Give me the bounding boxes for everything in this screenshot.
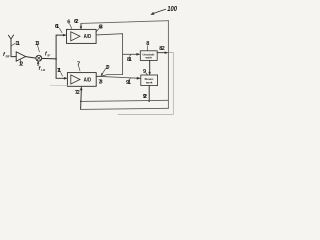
wire right vertical feedback — [167, 21, 169, 109]
svg-text:RF: RF — [6, 54, 10, 58]
svg-text:11: 11 — [15, 41, 20, 47]
label 13 leader — [38, 45, 40, 52]
svg-text:73: 73 — [98, 79, 102, 85]
svg-text:7: 7 — [77, 61, 80, 67]
wire 82 output of block 8 — [157, 52, 165, 54]
wire output stub of U7 — [96, 75, 100, 77]
block 8 — [140, 51, 157, 61]
label 7 leader — [79, 66, 81, 71]
svg-text:71: 71 — [57, 68, 61, 74]
svg-text:LO: LO — [41, 68, 46, 72]
block 9 — [141, 75, 158, 86]
label 9 leader — [146, 73, 148, 75]
svg-text:81: 81 — [127, 57, 132, 63]
svg-text:91: 91 — [126, 80, 131, 86]
svg-text:6: 6 — [67, 20, 70, 26]
wire fLO input — [37, 63, 39, 66]
label 61 leader — [59, 28, 62, 33]
wire 81 into block 8 — [123, 53, 137, 55]
label 72 leader — [80, 89, 81, 90]
svg-text:92: 92 — [143, 94, 147, 100]
label 10 arrow — [102, 69, 105, 74]
wire lower feedback bottom run — [81, 108, 169, 109]
A/D converter U7 — [67, 73, 96, 87]
antenna — [8, 35, 13, 39]
svg-text:12: 12 — [19, 62, 23, 68]
svg-text:9: 9 — [143, 69, 146, 75]
wire mixer to node fIF — [42, 57, 56, 60]
svg-text:61: 61 — [55, 24, 59, 30]
mixer 13 — [36, 55, 42, 61]
wire node down to ADC 7 input — [56, 59, 64, 78]
svg-text:13: 13 — [35, 41, 39, 47]
svg-text:werk: werk — [145, 81, 153, 85]
label 71 leader — [61, 72, 63, 76]
svg-text:werk: werk — [144, 56, 152, 60]
label 6 leader — [70, 24, 72, 28]
label 12 leader — [19, 60, 22, 62]
label 11 — [12, 43, 16, 45]
stray scan mark — [50, 84, 67, 86]
label 91 leader — [129, 79, 130, 80]
wire lower feedback upper run — [81, 100, 169, 101]
label 100 arrow — [153, 9, 165, 13]
svg-text:A/D: A/D — [84, 78, 92, 84]
svg-text:A/D: A/D — [84, 34, 92, 40]
svg-text:IF: IF — [48, 54, 51, 58]
wire 91 into block 9 — [101, 76, 138, 78]
svg-text:63: 63 — [99, 24, 103, 30]
node fIF junction — [55, 58, 57, 60]
svg-text:8: 8 — [146, 41, 149, 47]
wire output 63 — [96, 34, 123, 75]
label 81 leader — [129, 55, 130, 57]
wire clock 72 into U7 — [80, 90, 83, 109]
wire antenna lead — [11, 39, 16, 57]
label 8 leader — [146, 46, 148, 51]
svg-text:82: 82 — [159, 46, 165, 52]
amplifier 12 — [16, 52, 25, 61]
wire clock 62 into U6 — [80, 23, 82, 26]
wire top feedback — [81, 21, 168, 24]
junction dot at clock riser — [80, 101, 82, 103]
wire 92 below block 9 — [148, 86, 150, 102]
wire amp to mixer — [26, 57, 36, 59]
wire node up to ADC 6 input — [56, 35, 63, 59]
wire outer loop — [118, 53, 173, 115]
svg-text:72: 72 — [75, 90, 80, 96]
label 63 leader — [96, 29, 99, 33]
svg-text:62: 62 — [74, 19, 79, 25]
A/D converter U6 — [67, 29, 97, 43]
wire 63 branch down to output node — [101, 75, 123, 77]
wire block 8 to block 9 — [149, 60, 151, 72]
wire 82 continuation — [168, 52, 173, 54]
svg-text:100: 100 — [167, 4, 177, 13]
junction dot 92 — [148, 100, 150, 102]
